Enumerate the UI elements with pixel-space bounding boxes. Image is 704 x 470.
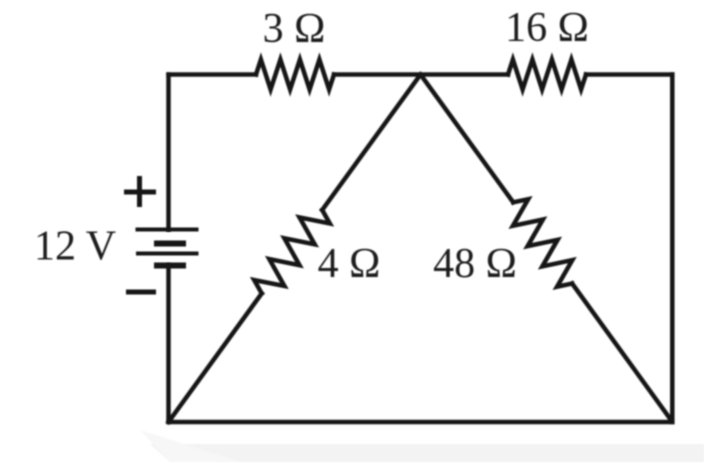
resistor R4 48 ohm (zigzag on right diagonal) [513,199,572,287]
svg-text:3 Ω: 3 Ω [263,6,326,52]
page shadow band at bottom [140,430,704,462]
wire: left vertical lower (battery - plate to bottom-left corner) [166,266,171,423]
wire: R2 to top-right corner [586,72,672,77]
wire: left diagonal lower (R3 to bottom-left corner) [169,293,262,422]
battery V1 long plate 2 [136,252,199,256]
minus sign of battery [126,290,156,295]
wire: right diagonal upper (node A down to R4) [421,75,514,203]
wire: right diagonal lower (R4 to bottom-right corner) [572,284,671,421]
wire: R1 to top-center node through node A [334,72,508,77]
battery V1 negative short plate [154,263,186,269]
svg-text:4 Ω: 4 Ω [318,241,381,287]
wire: top-left corner to R1 (3 ohm) [169,72,257,77]
battery V1 short plate 1 [154,241,186,247]
resistor R2 16 ohm (zigzag, top-right branch) [508,60,586,90]
resistor R3 4 ohm (zigzag on left diagonal) [254,210,330,293]
svg-text:12 V: 12 V [34,224,116,270]
svg-text:48 Ω: 48 Ω [433,241,517,287]
battery V1 positive long plate [136,228,199,232]
wire: bottom horizontal [169,420,673,425]
resistor R1 3 ohm (zigzag, top-left branch) [256,60,334,90]
wire: left diagonal upper (node A down to R3) [322,75,420,211]
wire: left vertical upper (top-left corner to battery + plate) [166,75,171,230]
wire: right side vertical [670,75,675,423]
plus sign of battery [124,176,156,207]
svg-text:16 Ω: 16 Ω [505,5,589,51]
